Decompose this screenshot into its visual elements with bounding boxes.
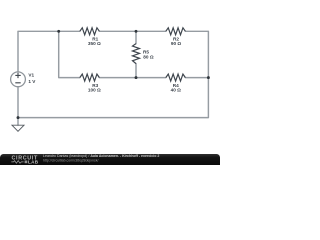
wire node A vertical + middle rail left [59, 31, 80, 77]
wire V1 bottom to ground [17, 87, 19, 126]
junction node top rail at R5 [135, 30, 138, 33]
wire top rail right + right vertical + bottom rail [18, 31, 208, 117]
resistor R2 [166, 28, 186, 35]
junction node at ground [17, 116, 20, 119]
resistor R3 [80, 74, 100, 81]
junction node middle rail at R5 [135, 76, 138, 79]
voltage source V1 [11, 72, 26, 87]
junction node on top rail left [57, 30, 60, 33]
resistor R1 [80, 28, 100, 35]
footer bar [0, 154, 220, 165]
resistor R4 [166, 74, 186, 81]
wire top rail middle segment [99, 30, 165, 32]
resistor R5 (vertical) [133, 44, 140, 64]
wire middle rail right segment [185, 77, 208, 79]
svg-text:LAB: LAB [28, 160, 39, 165]
svg-text:Leandro Dantas (leandropd) / A: Leandro Dantas (leandropd) / Aula Aciona… [43, 154, 159, 158]
wire R5 bottom lead [135, 64, 137, 78]
logo LAB [25, 161, 28, 164]
logo zigzag [11, 161, 23, 164]
svg-text:http://circuitlab.com/c8bq28de: http://circuitlab.com/c8bq28dejxnsk/ [43, 159, 98, 163]
wire top-left from V1 to top rail [18, 31, 80, 72]
wire middle rail center segment [99, 77, 165, 79]
junction node middle rail right [207, 76, 210, 79]
wire R5 top lead [135, 31, 137, 43]
ground [12, 125, 24, 131]
